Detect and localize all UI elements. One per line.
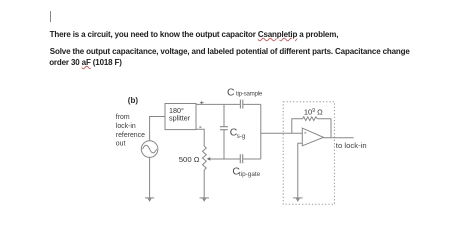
ground (source) <box>145 198 154 202</box>
svg-text:s-g: s-g <box>237 133 246 140</box>
label C s-g <box>230 128 246 141</box>
label: from lock-in reference out <box>116 114 145 148</box>
wire: bottom rail (wiper to C tip-gate) <box>210 158 240 160</box>
wire: source bottom to ground <box>149 157 151 198</box>
svg-text:+: + <box>200 98 205 107</box>
op-amp U2 <box>302 128 323 146</box>
resistor R1 500 ohm <box>203 146 207 170</box>
svg-text:lock-in: lock-in <box>116 123 136 130</box>
capacitor C tip-sample <box>240 100 242 109</box>
wire: op-amp output <box>324 137 354 139</box>
svg-text:tip-gate: tip-gate <box>239 171 261 178</box>
label 180° splitter <box>169 106 191 123</box>
wire: feedback left vertical <box>292 119 303 134</box>
headline line 3 <box>49 59 122 67</box>
dashed amplifier enclosure <box>283 102 334 205</box>
svg-text:500 Ω: 500 Ω <box>179 155 200 164</box>
headline line 1 <box>50 31 339 39</box>
svg-text:to lock-in: to lock-in <box>336 141 367 150</box>
svg-text:C: C <box>227 88 235 99</box>
wire: top rail left (splitter + to C tip-sample) <box>196 103 240 105</box>
ground (resistor) <box>200 198 210 202</box>
ground (op-amp + input) <box>293 198 303 202</box>
AC voltage source <box>141 141 158 158</box>
label - (splitter negative output) <box>199 126 201 128</box>
wire: C s-g top branch <box>223 104 225 126</box>
svg-text:reference: reference <box>116 132 145 139</box>
wire: node rail (tip node vertical) <box>260 104 262 159</box>
wiper arrow into resistor <box>207 157 211 161</box>
resistor Rf 10^9 ohm <box>303 117 318 121</box>
svg-text:from: from <box>116 114 130 121</box>
wire: tip node to op-amp inverting input <box>261 132 303 134</box>
wire: top rail right (C tip-sample to node rail) <box>243 103 261 105</box>
label C tip-gate <box>232 166 260 178</box>
label - (op-amp inverting input) <box>304 132 306 134</box>
svg-text:(b): (b) <box>128 96 139 105</box>
wire: bottom rail right (C tip-gate to node rail) <box>243 158 261 160</box>
svg-text:out: out <box>116 141 126 148</box>
label C tip-sample <box>227 88 263 99</box>
wire: splitter - output down to resistor <box>196 129 204 146</box>
headline line 2 <box>50 48 410 56</box>
text cursor <box>50 11 52 21</box>
splitter box U1 <box>165 104 196 130</box>
wire: resistor bottom to ground <box>203 170 205 198</box>
wire: op-amp non-inverting input to ground <box>298 143 303 198</box>
wire: C s-g bottom branch <box>223 130 225 159</box>
svg-text:splitter: splitter <box>169 114 191 123</box>
svg-text:tip-sample: tip-sample <box>236 91 263 98</box>
capacitor C s-g <box>220 127 228 130</box>
wire: feedback right vertical <box>317 119 331 138</box>
svg-text:109 Ω: 109 Ω <box>304 108 323 117</box>
label (b) <box>128 96 139 105</box>
wire: source top to splitter input <box>150 117 165 141</box>
capacitor C tip-gate <box>240 154 242 163</box>
